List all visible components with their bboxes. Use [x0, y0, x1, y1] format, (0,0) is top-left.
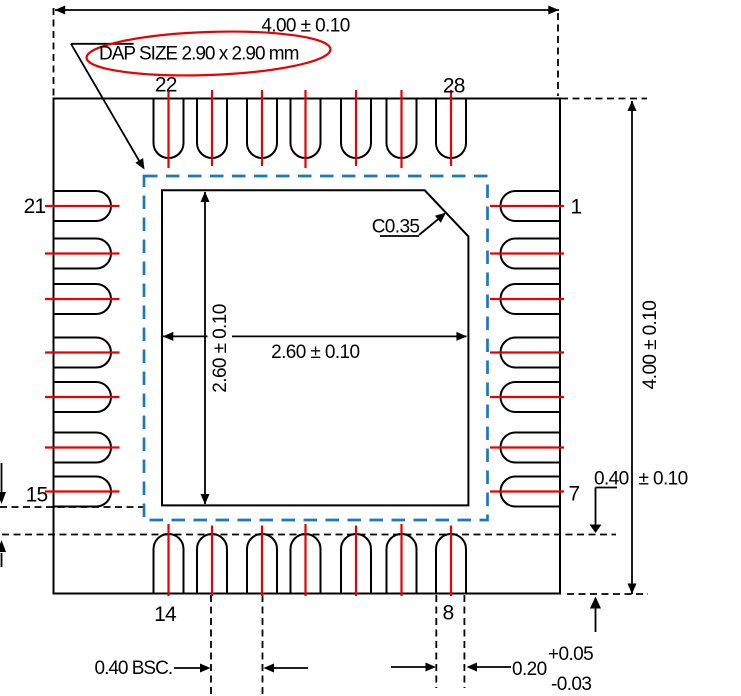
svg-text:8: 8: [443, 602, 454, 625]
svg-text:4.00 ± 0.10: 4.00 ± 0.10: [640, 301, 661, 389]
svg-text:± 0.10: ± 0.10: [639, 469, 688, 490]
svg-text:1: 1: [571, 196, 582, 219]
svg-text:22: 22: [155, 74, 177, 97]
svg-text:14: 14: [154, 603, 177, 626]
svg-text:+0.05: +0.05: [548, 644, 593, 665]
svg-text:7: 7: [569, 483, 580, 506]
svg-text:0.20: 0.20: [512, 659, 547, 680]
svg-text:28: 28: [443, 75, 465, 98]
svg-text:2.60 ± 0.10: 2.60 ± 0.10: [210, 304, 231, 392]
svg-text:2.60 ± 0.10: 2.60 ± 0.10: [271, 342, 359, 363]
svg-text:21: 21: [24, 195, 46, 218]
svg-text:0.40: 0.40: [594, 469, 629, 490]
svg-text:0.40 BSC.: 0.40 BSC.: [95, 658, 173, 679]
svg-text:DAP SIZE 2.90 x 2.90 mm: DAP SIZE 2.90 x 2.90 mm: [99, 44, 299, 65]
svg-text:15: 15: [26, 484, 48, 507]
svg-text:-0.03: -0.03: [551, 674, 591, 695]
svg-text:C0.35: C0.35: [372, 217, 420, 238]
svg-text:4.00 ± 0.10: 4.00 ± 0.10: [261, 16, 349, 37]
